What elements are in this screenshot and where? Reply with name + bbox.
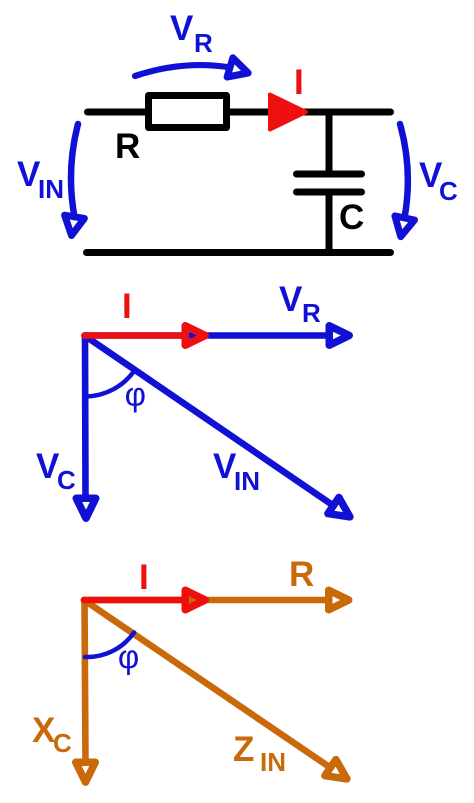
svg-text:IN: IN xyxy=(38,174,64,204)
phasor angle arc phi xyxy=(85,370,135,397)
svg-text:R: R xyxy=(302,298,321,328)
phasor VIN vector xyxy=(85,336,350,517)
svg-text:C: C xyxy=(339,198,364,237)
arrow VIN (curved, left) xyxy=(65,124,85,236)
arrow VC (curved, right) xyxy=(395,124,415,237)
svg-text:I: I xyxy=(294,63,304,102)
resistor R xyxy=(149,96,227,128)
svg-text:IN: IN xyxy=(260,747,286,777)
svg-text:I: I xyxy=(139,558,149,597)
svg-text:R: R xyxy=(115,127,140,166)
impedance ZIN vector xyxy=(84,600,347,779)
phasor VR vector xyxy=(85,326,350,346)
impedance XC vector xyxy=(76,600,96,782)
svg-text:φ: φ xyxy=(118,638,139,675)
svg-text:Z: Z xyxy=(233,730,254,769)
wire capacitor branch lower xyxy=(326,195,333,252)
svg-text:V: V xyxy=(170,9,194,48)
wire bottom rail xyxy=(87,249,391,256)
impedance current vector I xyxy=(84,590,205,610)
svg-text:C: C xyxy=(439,176,458,206)
capacitor C xyxy=(297,174,362,192)
svg-text:φ: φ xyxy=(125,376,146,413)
svg-text:R: R xyxy=(289,555,314,594)
svg-text:V: V xyxy=(279,280,303,319)
impedance angle arc phi xyxy=(85,633,134,658)
svg-text:IN: IN xyxy=(234,466,260,496)
svg-text:C: C xyxy=(57,465,76,495)
phasor VC vector xyxy=(76,336,96,519)
svg-text:R: R xyxy=(194,28,213,58)
phasor current vector I xyxy=(85,326,206,346)
svg-text:C: C xyxy=(53,728,72,758)
svg-text:I: I xyxy=(122,287,132,326)
impedance R vector xyxy=(84,590,349,610)
wire capacitor branch upper xyxy=(326,112,333,171)
current arrow I xyxy=(270,95,306,130)
wire top rail xyxy=(88,109,391,116)
arrow VR (curved, top) xyxy=(135,58,248,77)
